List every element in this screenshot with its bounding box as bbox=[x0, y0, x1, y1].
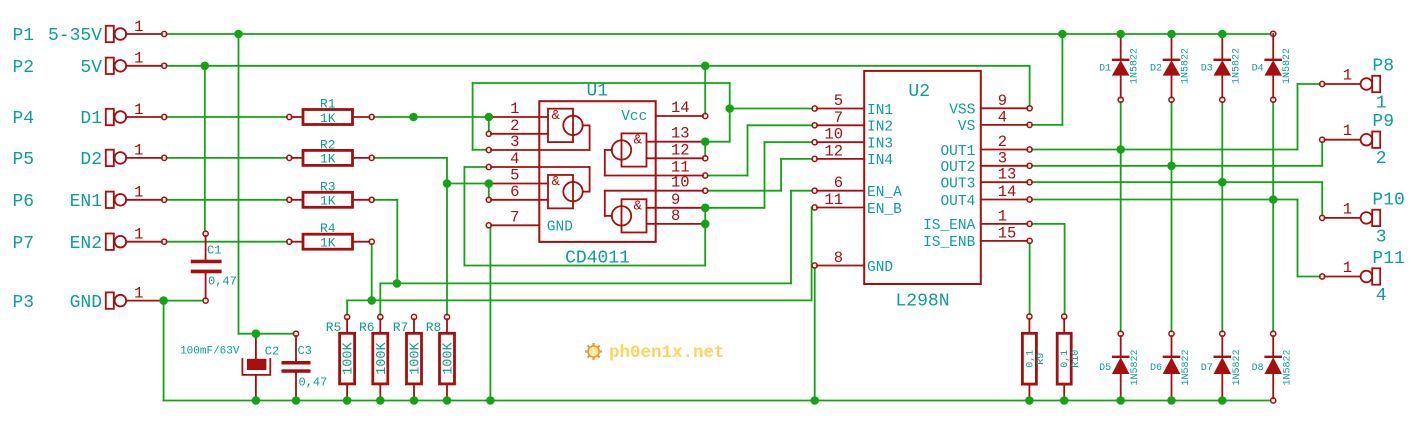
svg-text:IS_ENB: IS_ENB bbox=[923, 235, 976, 251]
svg-text:P9: P9 bbox=[1372, 112, 1394, 132]
svg-text:R1: R1 bbox=[320, 97, 336, 112]
svg-text:P2: P2 bbox=[13, 58, 35, 78]
svg-text:VSS: VSS bbox=[949, 103, 975, 119]
svg-text:OUT3: OUT3 bbox=[940, 177, 975, 193]
svg-text:R6: R6 bbox=[359, 320, 375, 335]
svg-text:7: 7 bbox=[834, 109, 843, 127]
svg-text:3: 3 bbox=[1376, 227, 1387, 247]
svg-text:1: 1 bbox=[134, 18, 143, 36]
svg-text:3: 3 bbox=[998, 149, 1007, 167]
svg-text:IN2: IN2 bbox=[867, 120, 893, 136]
svg-text:8: 8 bbox=[834, 249, 843, 267]
svg-text:CD4011: CD4011 bbox=[565, 248, 630, 268]
svg-text:R5: R5 bbox=[326, 320, 342, 335]
svg-text:EN2: EN2 bbox=[70, 234, 102, 254]
svg-text:13: 13 bbox=[998, 166, 1017, 184]
svg-text:P11: P11 bbox=[1372, 249, 1404, 269]
svg-text:1N5822: 1N5822 bbox=[1181, 349, 1192, 385]
svg-text:Vcc: Vcc bbox=[621, 109, 647, 125]
svg-text:P4: P4 bbox=[13, 109, 35, 129]
svg-text:1: 1 bbox=[134, 142, 143, 160]
svg-text:12: 12 bbox=[824, 142, 843, 160]
svg-text:D2: D2 bbox=[1150, 64, 1162, 75]
svg-text:1N5822: 1N5822 bbox=[1232, 349, 1243, 385]
svg-text:1: 1 bbox=[134, 101, 143, 119]
svg-text:9: 9 bbox=[998, 92, 1007, 110]
svg-text:C1: C1 bbox=[207, 244, 221, 258]
svg-text:D5: D5 bbox=[1099, 363, 1111, 374]
svg-text:P6: P6 bbox=[13, 192, 35, 212]
svg-text:1: 1 bbox=[134, 284, 143, 302]
svg-text:R7: R7 bbox=[393, 320, 409, 335]
svg-text:1N5822: 1N5822 bbox=[1130, 349, 1141, 385]
svg-text:1: 1 bbox=[1376, 94, 1387, 114]
svg-text:0,47: 0,47 bbox=[208, 275, 237, 289]
svg-text:1: 1 bbox=[134, 184, 143, 202]
svg-text:6: 6 bbox=[510, 183, 519, 201]
svg-text:1: 1 bbox=[134, 50, 143, 68]
svg-text:OUT4: OUT4 bbox=[940, 194, 975, 210]
svg-text:D7: D7 bbox=[1201, 363, 1213, 374]
svg-text:1N5822: 1N5822 bbox=[1231, 48, 1242, 84]
svg-text:10: 10 bbox=[671, 174, 690, 192]
svg-text:1: 1 bbox=[1343, 67, 1352, 85]
svg-text:ph0en1x.net: ph0en1x.net bbox=[609, 343, 725, 363]
svg-text:R9: R9 bbox=[1036, 353, 1047, 365]
svg-text:&: & bbox=[552, 174, 561, 190]
svg-text:100mF/63V: 100mF/63V bbox=[180, 346, 240, 358]
svg-text:100K: 100K bbox=[342, 341, 357, 374]
svg-text:U2: U2 bbox=[908, 82, 930, 102]
svg-text:11: 11 bbox=[824, 191, 843, 209]
svg-text:P3: P3 bbox=[13, 293, 35, 313]
svg-text:U1: U1 bbox=[587, 82, 609, 102]
svg-text:D1: D1 bbox=[80, 109, 102, 129]
svg-text:14: 14 bbox=[998, 183, 1017, 201]
svg-text:P5: P5 bbox=[13, 150, 35, 170]
svg-text:0,1: 0,1 bbox=[1025, 350, 1036, 368]
svg-text:6: 6 bbox=[834, 174, 843, 192]
svg-text:10: 10 bbox=[824, 126, 843, 144]
svg-text:14: 14 bbox=[671, 99, 690, 117]
svg-text:IN1: IN1 bbox=[867, 103, 893, 119]
svg-text:&: & bbox=[634, 133, 643, 149]
svg-text:P7: P7 bbox=[13, 234, 35, 254]
svg-text:0,1: 0,1 bbox=[1060, 350, 1071, 368]
svg-text:1N5822: 1N5822 bbox=[1181, 48, 1192, 84]
svg-text:IS_ENA: IS_ENA bbox=[923, 218, 976, 234]
svg-text:D1: D1 bbox=[1099, 64, 1111, 75]
svg-text:4: 4 bbox=[510, 150, 519, 168]
svg-text:1: 1 bbox=[1343, 122, 1352, 140]
svg-text:13: 13 bbox=[671, 125, 690, 143]
svg-text:OUT2: OUT2 bbox=[940, 160, 975, 176]
svg-text:EN1: EN1 bbox=[70, 192, 102, 212]
svg-text:1K: 1K bbox=[320, 236, 336, 251]
svg-text:1: 1 bbox=[1343, 200, 1352, 218]
svg-text:1N5822: 1N5822 bbox=[1283, 349, 1294, 385]
svg-text:7: 7 bbox=[510, 208, 519, 226]
svg-text:5-35V: 5-35V bbox=[48, 26, 102, 46]
svg-text:1K: 1K bbox=[320, 152, 336, 167]
svg-text:P1: P1 bbox=[13, 26, 35, 46]
svg-text:5: 5 bbox=[510, 167, 519, 185]
svg-text:VS: VS bbox=[958, 119, 975, 135]
svg-text:5V: 5V bbox=[80, 58, 102, 78]
svg-text:4: 4 bbox=[1376, 286, 1387, 306]
svg-text:1: 1 bbox=[998, 207, 1007, 225]
svg-text:1N5822: 1N5822 bbox=[1130, 48, 1141, 84]
svg-text:EN_A: EN_A bbox=[867, 185, 902, 201]
svg-text:0,47: 0,47 bbox=[299, 376, 328, 390]
svg-text:1K: 1K bbox=[320, 194, 336, 209]
svg-text:C3: C3 bbox=[298, 344, 312, 358]
svg-text:100K: 100K bbox=[442, 341, 457, 374]
svg-text:4: 4 bbox=[998, 108, 1007, 126]
svg-text:GND: GND bbox=[867, 260, 893, 276]
svg-text:P8: P8 bbox=[1372, 57, 1394, 77]
svg-text:&: & bbox=[552, 108, 561, 124]
svg-text:R4: R4 bbox=[320, 221, 336, 236]
svg-text:1: 1 bbox=[134, 226, 143, 244]
svg-text:R10: R10 bbox=[1071, 350, 1082, 368]
svg-text:1: 1 bbox=[1343, 259, 1352, 277]
svg-text:2: 2 bbox=[1376, 149, 1387, 169]
svg-text:&: & bbox=[634, 198, 643, 214]
svg-text:L298N: L298N bbox=[895, 292, 949, 312]
svg-text:EN_B: EN_B bbox=[867, 202, 902, 218]
svg-text:IN4: IN4 bbox=[867, 153, 893, 169]
svg-text:D6: D6 bbox=[1150, 363, 1162, 374]
svg-text:P10: P10 bbox=[1372, 190, 1404, 210]
svg-text:1N5822: 1N5822 bbox=[1282, 48, 1293, 84]
svg-text:2: 2 bbox=[998, 133, 1007, 151]
svg-text:D2: D2 bbox=[80, 150, 102, 170]
svg-text:OUT1: OUT1 bbox=[940, 144, 975, 160]
svg-text:D4: D4 bbox=[1252, 64, 1264, 75]
svg-text:D8: D8 bbox=[1252, 363, 1264, 374]
svg-text:12: 12 bbox=[671, 141, 690, 159]
svg-text:1: 1 bbox=[510, 100, 519, 118]
svg-text:3: 3 bbox=[510, 133, 519, 151]
svg-text:IN3: IN3 bbox=[867, 137, 893, 153]
svg-text:15: 15 bbox=[998, 224, 1017, 242]
svg-text:8: 8 bbox=[671, 207, 680, 225]
svg-text:GND: GND bbox=[70, 293, 102, 313]
svg-text:100K: 100K bbox=[409, 341, 424, 374]
svg-text:GND: GND bbox=[547, 219, 573, 235]
svg-text:5: 5 bbox=[834, 92, 843, 110]
svg-text:R8: R8 bbox=[426, 320, 442, 335]
svg-text:R3: R3 bbox=[320, 179, 336, 194]
svg-text:1K: 1K bbox=[320, 111, 336, 126]
svg-text:R2: R2 bbox=[320, 137, 336, 152]
svg-text:C2: C2 bbox=[265, 345, 279, 359]
svg-text:100K: 100K bbox=[375, 341, 390, 374]
svg-text:D3: D3 bbox=[1201, 64, 1213, 75]
